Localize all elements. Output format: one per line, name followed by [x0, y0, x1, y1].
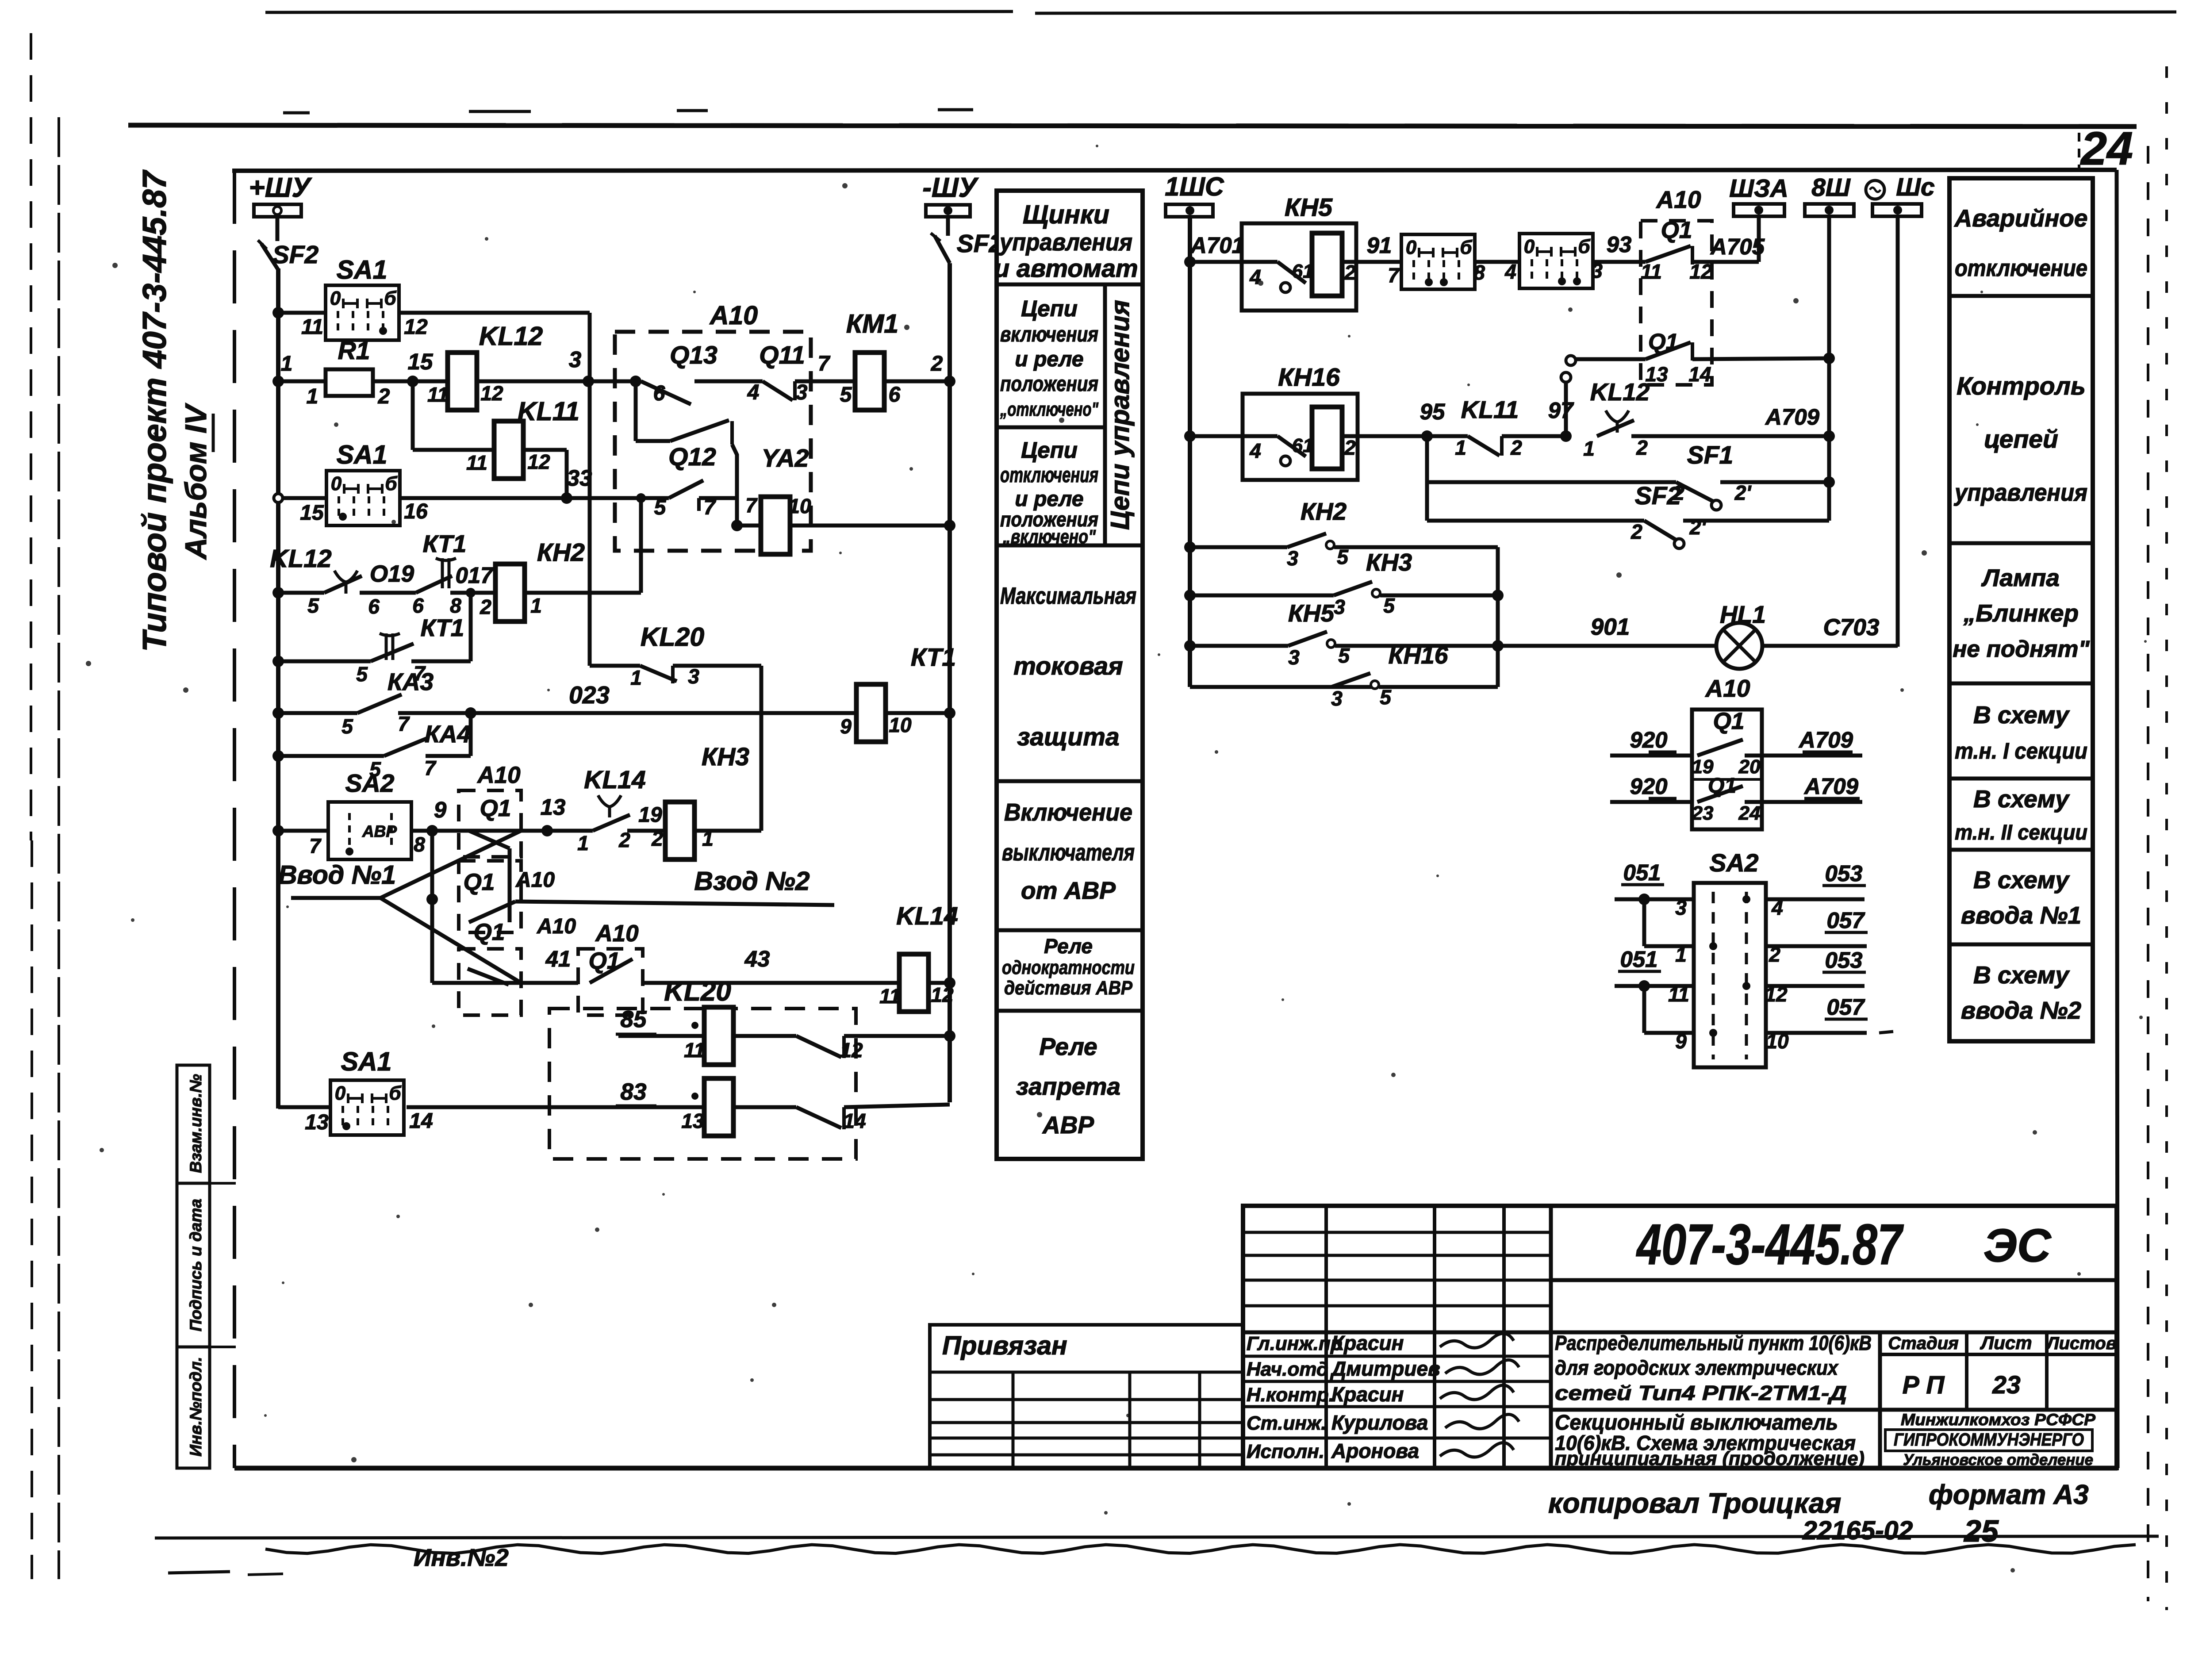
svg-text:97: 97: [1548, 398, 1574, 423]
svg-text:Стадия: Стадия: [1888, 1334, 1958, 1353]
svg-text:Цепи: Цепи: [1021, 437, 1078, 463]
svg-text:3: 3: [1331, 687, 1343, 710]
svg-text:Инв.№2: Инв.№2: [414, 1544, 509, 1571]
svg-text:токовая: токовая: [1013, 652, 1123, 680]
row SF2: [1427, 519, 1644, 523]
svg-text:3: 3: [1287, 547, 1298, 570]
svg-text:4: 4: [1249, 439, 1261, 462]
svg-text:КН2: КН2: [537, 538, 585, 567]
svg-text:8: 8: [1473, 261, 1485, 284]
svg-text:12: 12: [527, 450, 550, 473]
svg-text:KL14: KL14: [896, 902, 958, 930]
row KH2: KL12 019 KT1 017 KH2: [272, 587, 284, 598]
svg-text:А10: А10: [1656, 186, 1701, 213]
svg-text:A10: A10: [595, 921, 638, 947]
wire vvod1 to Q1 box3: [380, 898, 521, 983]
svg-text:ввода №2: ввода №2: [1961, 997, 2082, 1024]
top border line: [128, 125, 2137, 127]
svg-text:5: 5: [307, 594, 319, 617]
svg-text:Взод №2: Взод №2: [694, 867, 810, 896]
switch SA1 no.3: [1401, 234, 1475, 289]
wire vvod1 to Q1 box1: [380, 831, 521, 898]
svg-text:Минжилкомхоз РСФСР: Минжилкомхоз РСФСР: [1901, 1411, 2095, 1429]
svg-text:Н.контр.: Н.контр.: [1247, 1384, 1334, 1406]
title grid small rows: [1243, 1231, 1551, 1234]
frame left line: [233, 171, 236, 1468]
svg-text:Красин: Красин: [1331, 1383, 1404, 1406]
svg-text:0: 0: [330, 288, 341, 309]
svg-text:KL12: KL12: [479, 322, 543, 351]
svg-text:положения: положения: [1000, 372, 1098, 396]
signatures squiggles: [1440, 1333, 1514, 1348]
svg-text:Q13: Q13: [670, 341, 717, 369]
svg-text:Q1: Q1: [480, 795, 511, 821]
svg-text:2: 2: [931, 352, 943, 376]
svg-text:Ввод №1: Ввод №1: [278, 860, 396, 890]
svg-text:КТ1: КТ1: [423, 530, 467, 557]
svg-text:3: 3: [688, 665, 699, 688]
wire ШЗА drop: [1757, 216, 1761, 262]
svg-text:93: 93: [1607, 232, 1632, 257]
row A701 KH5 SA1 SA1 Q1 A705: [1184, 256, 1196, 268]
row B: R1 KL12 A10 KM1: [272, 376, 284, 387]
svg-text:R1: R1: [338, 337, 370, 365]
svg-text:KL11: KL11: [1461, 396, 1519, 423]
svg-text:3: 3: [1675, 896, 1687, 919]
svg-text:4: 4: [747, 381, 760, 404]
wire 8Ш drop: [1827, 216, 1831, 521]
svg-text:A10: A10: [709, 301, 758, 330]
svg-text:от АВР: от АВР: [1021, 877, 1116, 904]
svg-text:2: 2: [1510, 436, 1522, 459]
svg-text:1: 1: [1455, 436, 1466, 459]
svg-text:Подпись и дата: Подпись и дата: [187, 1199, 205, 1331]
svg-text:14: 14: [843, 1109, 866, 1132]
row SA2 / 9 / 13 / KL14 / KH3: [272, 825, 284, 836]
svg-text:2: 2: [618, 828, 630, 852]
svg-text:КН16: КН16: [1278, 363, 1340, 391]
svg-text:А705: А705: [1710, 234, 1765, 259]
svg-text:13: 13: [305, 1111, 329, 1134]
svg-text:SA2: SA2: [345, 769, 395, 798]
svg-text:13: 13: [681, 1109, 704, 1132]
svg-text:SA1: SA1: [341, 1047, 392, 1076]
svg-text:11: 11: [684, 1039, 705, 1062]
svg-text:9: 9: [1675, 1030, 1687, 1053]
svg-text:16: 16: [404, 500, 428, 523]
svg-text:19: 19: [638, 803, 662, 827]
svg-text:Исполн.: Исполн.: [1247, 1441, 1324, 1462]
ladder right vertical: [1496, 547, 1500, 687]
wire +ШУ bus: [276, 268, 280, 1108]
switch SA1 no.4: [1519, 234, 1593, 288]
svg-text:КН3: КН3: [1366, 548, 1412, 576]
svg-text:SF2: SF2: [272, 241, 319, 269]
svg-text:6: 6: [889, 383, 901, 407]
svg-text:А701: А701: [1189, 233, 1244, 258]
svg-text:ГИПРОКОММУНЭНЕРГО: ГИПРОКОММУНЭНЕРГО: [1894, 1430, 2084, 1450]
svg-text:Аронова: Аронова: [1331, 1439, 1419, 1462]
svg-text:ШЗА: ШЗА: [1729, 174, 1788, 203]
svg-text:Нач.отд: Нач.отд: [1247, 1358, 1328, 1380]
svg-text:б: б: [1460, 237, 1473, 258]
svg-text:управления: управления: [998, 228, 1132, 256]
svg-text:A10: A10: [476, 762, 520, 788]
wire 1ШС bus: [1188, 217, 1192, 687]
wire KH3 to KL20 row: [760, 666, 763, 831]
svg-text:1: 1: [577, 832, 589, 855]
svg-text:7: 7: [818, 352, 831, 376]
svg-text:41: 41: [545, 946, 571, 971]
svg-text:-ШУ: -ШУ: [922, 173, 978, 203]
svg-text:6: 6: [368, 595, 380, 618]
svg-text:11: 11: [1641, 260, 1662, 283]
svg-text:Лист: Лист: [1980, 1332, 2032, 1353]
svg-text:11: 11: [1668, 983, 1689, 1006]
svg-text:2: 2: [1636, 436, 1648, 459]
svg-text:13: 13: [541, 794, 566, 820]
breaker SF2 left: [261, 244, 278, 270]
svg-text:7: 7: [424, 756, 437, 779]
plug link circles: [1561, 372, 1571, 382]
svg-text:SA2: SA2: [1710, 849, 1759, 877]
svg-text:т.н. I секции: т.н. I секции: [1955, 738, 2087, 763]
svg-text:Q1: Q1: [1713, 708, 1745, 734]
svg-text:3: 3: [569, 347, 581, 372]
contact Q1 23-24: [1697, 786, 1743, 802]
svg-text:1: 1: [1675, 943, 1687, 966]
svg-text:А709: А709: [1798, 727, 1853, 752]
contactor block A10 dashed box: [615, 332, 811, 551]
svg-text:24: 24: [2080, 123, 2133, 175]
contact Q1 11-12: [1646, 246, 1691, 262]
svg-text:0: 0: [1524, 236, 1535, 257]
coil KL20.2: [704, 1078, 733, 1136]
svg-text:б: б: [1578, 236, 1591, 257]
svg-text:запрета: запрета: [1016, 1073, 1120, 1100]
svg-text:А709: А709: [1803, 774, 1859, 799]
svg-text:3: 3: [796, 381, 808, 404]
coil KL20.1: [704, 1007, 733, 1065]
svg-text:2: 2: [1344, 436, 1356, 459]
left margin line 2: [58, 117, 60, 1579]
bus Шс: [1866, 180, 1884, 199]
svg-text:SA1: SA1: [337, 440, 387, 469]
middle legend column: [997, 191, 1143, 1159]
svg-text:20: 20: [1738, 756, 1761, 778]
svg-text:Реле: Реле: [1044, 935, 1093, 958]
row KH16 contact: [1190, 685, 1374, 689]
svg-text:12: 12: [840, 1039, 863, 1062]
svg-text:7: 7: [398, 712, 410, 735]
row 95 KH16 KL11 97 KL12 A709: [1184, 430, 1196, 442]
svg-text:Типовой проект 407-3-445.87: Типовой проект 407-3-445.87: [136, 169, 173, 652]
svg-text:057: 057: [1826, 908, 1865, 933]
svg-text:отключение: отключение: [1955, 255, 2087, 281]
svg-text:KL20: KL20: [641, 622, 704, 652]
svg-text:В схему: В схему: [1973, 866, 2070, 894]
svg-text:23: 23: [1692, 802, 1714, 824]
svg-text:91: 91: [1367, 233, 1392, 258]
svg-text:б: б: [384, 288, 397, 309]
stamp column ticks: [210, 1182, 236, 1185]
svg-text:11: 11: [879, 985, 901, 1008]
bottom lines: [155, 1536, 2159, 1538]
wire A-B vertical: [588, 313, 592, 381]
row KH2 contact: [1184, 541, 1196, 553]
svg-text:2: 2: [1631, 520, 1642, 543]
svg-text:Ульяновское отделение: Ульяновское отделение: [1903, 1451, 2093, 1469]
svg-text:2: 2: [1344, 261, 1356, 284]
svg-text:0: 0: [1406, 237, 1417, 258]
svg-text:защита: защита: [1017, 723, 1119, 751]
svg-text:КА3: КА3: [387, 668, 434, 695]
svg-text:5: 5: [1380, 686, 1392, 709]
row KL20 contact: [588, 381, 592, 666]
svg-text:сетей Тип4 РПК-2ТМ1-Д: сетей Тип4 РПК-2ТМ1-Д: [1555, 1381, 1847, 1404]
svg-text:7: 7: [745, 494, 758, 517]
contact KL20: [640, 666, 677, 681]
svg-text:2: 2: [378, 385, 390, 408]
svg-text:Q1: Q1: [474, 919, 505, 945]
svg-text:т.н. II секции: т.н. II секции: [1955, 821, 2087, 844]
svg-text:Листов: Листов: [2045, 1334, 2117, 1353]
scan edge line top: [265, 12, 1013, 12]
wire -ШУ bus: [948, 263, 952, 1102]
wire Шс drop: [1896, 216, 1900, 647]
svg-text:А10: А10: [537, 915, 576, 938]
svg-text:0: 0: [335, 1082, 346, 1104]
stray dashes above frame: [283, 111, 310, 115]
svg-text:017: 017: [455, 563, 494, 588]
svg-text:15: 15: [408, 349, 433, 374]
title block: [1243, 1206, 2117, 1468]
svg-text:023: 023: [569, 681, 610, 709]
svg-text:не поднят": не поднят": [1953, 636, 2090, 662]
svg-text:5: 5: [356, 663, 368, 686]
svg-text:10: 10: [788, 495, 811, 518]
svg-text:95: 95: [1420, 399, 1445, 424]
svg-text:051: 051: [1620, 947, 1657, 972]
svg-text:ввода №1: ввода №1: [1961, 901, 2081, 929]
svg-text:Альбом IV: Альбом IV: [179, 403, 213, 560]
left margin dashed line: [30, 33, 32, 840]
svg-text:407-3-445.87: 407-3-445.87: [1636, 1212, 1904, 1277]
svg-text:7: 7: [309, 834, 322, 857]
svg-text:25: 25: [1963, 1514, 1999, 1548]
svg-text:901: 901: [1591, 614, 1630, 640]
title right grid: [1878, 1332, 1882, 1468]
svg-text:С703: С703: [1823, 614, 1880, 641]
svg-text:Распределительный пункт 10(6)к: Распределительный пункт 10(6)кВ: [1555, 1331, 1872, 1354]
svg-text:Р П: Р П: [1903, 1371, 1945, 1399]
svg-text:2: 2: [480, 595, 491, 618]
svg-text:1: 1: [1583, 437, 1595, 460]
svg-text:15: 15: [300, 501, 324, 525]
svg-text:KL14: KL14: [584, 766, 645, 794]
svg-text:„включено": „включено": [1002, 526, 1096, 548]
svg-text:5: 5: [341, 715, 353, 738]
svg-text:цепей: цепей: [1984, 425, 2058, 453]
svg-text:Инв.№подл.: Инв.№подл.: [187, 1357, 205, 1456]
svg-text:и автомат: и автомат: [994, 254, 1138, 283]
svg-text:5: 5: [1383, 594, 1395, 617]
svg-text:ЭС: ЭС: [1983, 1220, 2052, 1272]
page-number corner cell dashes: [2078, 133, 2080, 168]
contact Q1 19-20: [1697, 740, 1743, 756]
svg-text:Q1: Q1: [1661, 217, 1692, 243]
right margin dashed lines: [2147, 146, 2149, 1601]
svg-text:11: 11: [466, 451, 487, 474]
svg-text:KL20: KL20: [664, 976, 731, 1007]
dashed box A10 with Q1 contacts: [1641, 221, 1712, 385]
row B2: SA1 15-16, node 33, Q12, YA2: [274, 494, 283, 502]
svg-text:053: 053: [1825, 947, 1862, 973]
svg-text:11: 11: [301, 315, 323, 339]
svg-text:5: 5: [654, 496, 667, 519]
svg-text:7: 7: [1388, 264, 1400, 287]
frame bottom line: [234, 1466, 2118, 1471]
svg-text:8Ш: 8Ш: [1811, 173, 1851, 202]
svg-text:4: 4: [1504, 260, 1516, 283]
svg-text:9: 9: [434, 797, 447, 822]
svg-text:051: 051: [1623, 860, 1661, 885]
svg-text:SF1: SF1: [1687, 441, 1734, 469]
row 023: KA3 KT1 coil: [272, 707, 284, 719]
svg-text:А10: А10: [515, 868, 555, 892]
svg-text:KL12: KL12: [1590, 378, 1650, 406]
svg-text:„Блинкер: „Блинкер: [1963, 599, 2079, 627]
svg-text:2: 2: [651, 827, 663, 850]
svg-text:Цепи: Цепи: [1021, 296, 1078, 321]
svg-text:КТ1: КТ1: [421, 614, 464, 641]
svg-text:Дмитриев: Дмитриев: [1330, 1357, 1440, 1380]
row KH3 contact: [1184, 590, 1196, 601]
svg-text:SF2: SF2: [1635, 482, 1681, 510]
svg-text:принципиальная (продолжение): принципиальная (продолжение): [1555, 1448, 1865, 1469]
wire 95 down: [1425, 436, 1429, 521]
svg-text:АВР: АВР: [1042, 1111, 1094, 1139]
svg-text:Привязан: Привязан: [942, 1331, 1067, 1360]
svg-text:YA2: YA2: [762, 444, 809, 472]
svg-text:отключения: отключения: [1000, 464, 1098, 487]
svg-text:14: 14: [1688, 363, 1711, 386]
svg-text:3: 3: [1334, 595, 1345, 618]
svg-text:б: б: [389, 1082, 402, 1104]
row KH5 contact + lamp HL1: [1184, 640, 1196, 652]
svg-text:3: 3: [1288, 646, 1300, 669]
svg-text:1: 1: [307, 385, 318, 408]
row 41-43 KL14 coil: [432, 981, 578, 985]
svg-text:действия АВР: действия АВР: [1004, 977, 1133, 999]
wire 33 to KH2 row: [639, 498, 643, 593]
svg-text:23: 23: [1992, 1371, 2021, 1399]
svg-text:12: 12: [480, 382, 503, 405]
svg-text:КН16: КН16: [1389, 641, 1448, 669]
frame top line: [232, 170, 2117, 171]
svg-text:выключателя: выключателя: [1002, 840, 1135, 866]
svg-text:SA1: SA1: [337, 255, 387, 284]
svg-text:14: 14: [409, 1109, 433, 1133]
svg-text:и реле: и реле: [1015, 348, 1083, 371]
svg-text:8: 8: [414, 833, 425, 856]
dashed box A10 no.2 with contact Q1: [459, 861, 521, 932]
breaker SF2 right: [935, 236, 950, 263]
wire to vvod2: [515, 901, 834, 905]
svg-text:1: 1: [281, 352, 293, 376]
node KL11 branch: [411, 381, 415, 450]
svg-text:АВР: АВР: [362, 822, 397, 840]
right legend column: [1949, 178, 2093, 1041]
svg-text:Q11: Q11: [759, 341, 805, 369]
left attach table: [930, 1325, 1243, 1468]
contact KL20.2: [733, 1105, 796, 1109]
svg-text:А709: А709: [1765, 404, 1820, 430]
svg-text:КА4: КА4: [425, 720, 471, 748]
svg-text:Взам.инв.№: Взам.инв.№: [187, 1074, 205, 1173]
svg-text:Гл.инж.пр: Гл.инж.пр: [1247, 1333, 1343, 1354]
frame right line: [2117, 170, 2118, 1468]
svg-text:Щинки: Щинки: [1023, 200, 1109, 229]
svg-text:KL11: KL11: [518, 397, 579, 426]
row A: SA1 11-12: [272, 307, 284, 318]
svg-text:Максимальная: Максимальная: [1000, 583, 1136, 609]
svg-text:9: 9: [840, 715, 852, 738]
svg-text:В схему: В схему: [1973, 961, 2070, 989]
svg-text:Реле: Реле: [1039, 1033, 1097, 1060]
svg-text:формат А3: формат А3: [1929, 1480, 2089, 1510]
wire 9 vertical: [430, 831, 434, 983]
svg-text:057: 057: [1826, 994, 1865, 1020]
contact KL20.1: [733, 1034, 796, 1038]
SA2 row 057 lower: [1642, 986, 1646, 1033]
svg-text:КТ1: КТ1: [911, 643, 956, 671]
svg-text:Включение: Включение: [1004, 798, 1132, 826]
svg-text:920: 920: [1630, 727, 1667, 752]
svg-text:+ШУ: +ШУ: [249, 173, 312, 203]
svg-text:для городских электрических: для городских электрических: [1555, 1356, 1839, 1379]
svg-text:КМ1: КМ1: [846, 309, 898, 338]
svg-text:0: 0: [331, 473, 342, 495]
svg-text:Q12: Q12: [668, 443, 716, 471]
svg-text:920: 920: [1630, 774, 1667, 799]
svg-text:включения: включения: [1000, 323, 1098, 346]
svg-text:11: 11: [427, 383, 449, 406]
dashed box A10 no.4 with contact Q1: [578, 949, 643, 1015]
dashed box A10 no.1 with contact Q1: [459, 790, 521, 857]
svg-text:Q1: Q1: [464, 869, 495, 895]
svg-text:О19: О19: [370, 561, 414, 587]
scan speckles: [334, 422, 338, 427]
svg-text:1: 1: [630, 666, 642, 689]
signature rows: [1243, 1355, 1551, 1358]
svg-text:КН2: КН2: [1301, 498, 1347, 525]
svg-text:однократности: однократности: [1002, 957, 1135, 978]
svg-text:12: 12: [404, 315, 428, 339]
svg-text:22165-02: 22165-02: [1802, 1516, 1913, 1545]
svg-text:Шс: Шс: [1896, 173, 1935, 201]
svg-text:24: 24: [1738, 802, 1761, 824]
left stamp column: [177, 1065, 210, 1468]
svg-text:КН5: КН5: [1285, 193, 1333, 222]
svg-text:В схему: В схему: [1973, 701, 2070, 729]
svg-text:В схему: В схему: [1973, 785, 2070, 813]
SA2 row 057: [1642, 899, 1646, 946]
row KA4: [272, 750, 284, 762]
svg-text:„отключено": „отключено": [1000, 399, 1099, 420]
svg-text:КН3: КН3: [702, 743, 749, 771]
wire bottom row 83 to SA1: [278, 1105, 330, 1109]
